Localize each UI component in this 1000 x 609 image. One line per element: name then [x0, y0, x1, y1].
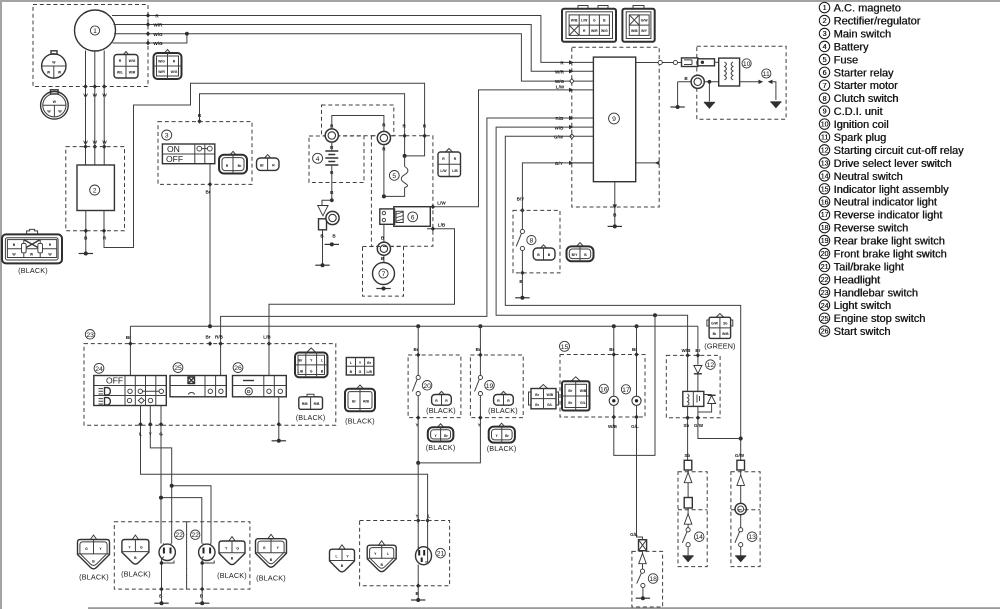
svg-text:6: 6 — [823, 70, 827, 77]
svg-text:20: 20 — [821, 251, 829, 258]
svg-text:Sb: Sb — [684, 453, 690, 458]
wire B CDI to ground — [613, 182, 618, 225]
svg-text:G/L: G/L — [580, 401, 586, 405]
wire CDI to ignition coil with bullets — [636, 60, 682, 64]
tail/brake light bulb (21) — [416, 547, 446, 565]
svg-text:G/W: G/W — [641, 19, 649, 23]
svg-text:17: 17 — [622, 387, 630, 394]
rear brake light switch (19) — [418, 326, 494, 463]
svg-text:Br: Br — [476, 347, 481, 352]
svg-text:(BLACK): (BLACK) — [217, 571, 247, 580]
svg-text:Br: Br — [609, 347, 614, 352]
svg-text:L: L — [428, 514, 431, 519]
CDI 4-pin connector — [622, 6, 654, 42]
svg-text:21: 21 — [821, 264, 829, 271]
clutch connector B/Y,B — [567, 243, 594, 262]
connector Br,R/B (BLACK) — [345, 385, 375, 426]
A.C. magneto dashed box — [33, 5, 148, 87]
A.C. magneto (1) — [75, 10, 116, 51]
svg-text:22: 22 — [175, 532, 183, 539]
battery negative link branch — [318, 200, 332, 264]
clutch switch dashed box — [513, 210, 560, 273]
wire B/Y CDI right stub — [636, 161, 660, 165]
svg-text:14: 14 — [821, 173, 829, 180]
wire W/R from magneto — [114, 22, 572, 71]
svg-text:G/W: G/W — [694, 423, 704, 428]
ignition coil (10) — [719, 58, 752, 86]
svg-text:W/B: W/B — [722, 332, 729, 336]
svg-text:B/Y: B/Y — [517, 196, 525, 201]
svg-text:18: 18 — [649, 576, 657, 583]
triangle connector Y,L,B in tail box — [367, 541, 396, 572]
neutral switch connector — [684, 460, 692, 470]
starter relay (6) — [380, 207, 431, 227]
svg-text:W: W — [83, 140, 88, 145]
svg-text:R/B: R/B — [363, 400, 369, 404]
ground headlight left — [154, 601, 168, 605]
diode 2 relay12 — [698, 395, 716, 413]
svg-text:Y: Y — [478, 423, 481, 428]
svg-text:W/G: W/G — [158, 60, 165, 64]
wire W/G second from magneto — [113, 32, 189, 46]
svg-text:G: G — [263, 546, 266, 550]
rectifier/regulator (2) — [77, 165, 114, 211]
wire battery positive with bullets — [330, 116, 386, 197]
battery dashed box — [309, 136, 364, 183]
svg-text:G: G — [159, 432, 163, 437]
svg-text:26: 26 — [234, 365, 242, 372]
svg-text:(BLACK): (BLACK) — [121, 570, 151, 579]
svg-text:Starter relay: Starter relay — [834, 67, 894, 79]
svg-text:G/W: G/W — [554, 135, 564, 140]
svg-text:W/B: W/B — [571, 19, 578, 23]
border artifact top — [0, 0, 1000, 2]
wire Y light switch to headlights — [148, 406, 211, 544]
svg-text:W/R: W/R — [154, 23, 164, 28]
bullet connector starter motor — [377, 242, 390, 255]
svg-text:R/B: R/B — [215, 335, 224, 340]
svg-text:Drive select lever switch: Drive select lever switch — [834, 158, 952, 170]
svg-text:8: 8 — [823, 96, 827, 103]
svg-text:W/G: W/G — [153, 41, 163, 46]
svg-text:W/B: W/B — [555, 125, 565, 130]
triangle connector Y,G,B (BLACK) in left box — [121, 535, 151, 578]
ground drive select switch — [735, 556, 746, 562]
svg-text:R/B: R/B — [302, 402, 308, 406]
svg-text:G/L: G/L — [630, 532, 638, 537]
svg-text:7: 7 — [382, 271, 386, 278]
wire Y brake to tail light — [415, 463, 420, 550]
svg-text:Starting circuit cut-off relay: Starting circuit cut-off relay — [834, 145, 965, 157]
svg-text:(GREEN): (GREEN) — [704, 342, 735, 351]
border artifact bottom — [88, 607, 1000, 609]
wire Br to light switch — [126, 326, 133, 375]
svg-text:Br: Br — [535, 403, 539, 407]
svg-text:W/G: W/G — [129, 59, 136, 63]
svg-text:(BLACK): (BLACK) — [79, 573, 109, 582]
front brake light switch (20) dashed box — [408, 355, 461, 418]
svg-text:L/B: L/B — [452, 169, 458, 173]
wire G light switch to headlights — [159, 406, 202, 544]
svg-text:Y: Y — [149, 432, 152, 437]
circled 22 right — [191, 530, 200, 539]
svg-text:A.C. magneto: A.C. magneto — [834, 3, 901, 15]
svg-text:W/B: W/B — [631, 29, 638, 33]
ground starter motor — [376, 287, 390, 291]
svg-text:R/B: R/B — [314, 402, 320, 406]
wire W x3 magneto to rectifier — [83, 51, 107, 166]
svg-text:Br: Br — [126, 335, 131, 340]
spark plug (11) — [740, 69, 776, 100]
svg-text:9: 9 — [823, 109, 827, 116]
svg-text:5: 5 — [392, 173, 396, 180]
svg-text:Fuse: Fuse — [834, 54, 858, 66]
svg-text:(BLACK): (BLACK) — [426, 443, 456, 452]
svg-text:16: 16 — [600, 386, 608, 393]
front brake light switch (20) — [412, 326, 432, 465]
big connector (BLACK) 6-pin bottom left — [2, 229, 62, 274]
svg-text:Sb: Sb — [683, 423, 689, 428]
svg-text:L: L — [321, 359, 323, 363]
svg-text:Main switch: Main switch — [834, 29, 891, 41]
diode relay12 — [694, 366, 702, 374]
start switch (26) — [233, 363, 287, 397]
svg-text:17: 17 — [821, 212, 829, 219]
triangle connector G,Y,B (BLACK) far left — [78, 535, 110, 581]
svg-text:(BLACK): (BLACK) — [345, 417, 375, 426]
reverse switch (18) — [637, 551, 658, 597]
rear brake light switch (19) dashed box — [470, 355, 523, 418]
CDI 8-pin connector — [562, 6, 616, 42]
svg-text:Y: Y — [415, 514, 418, 519]
triangle connector G,Y,B (BLACK) right of boxes — [256, 534, 287, 582]
svg-text:10: 10 — [821, 122, 829, 129]
wire W/B into relay12 — [682, 348, 692, 391]
svg-text:OFF: OFF — [166, 154, 183, 164]
svg-text:Y: Y — [415, 423, 418, 428]
svg-text:B/Y: B/Y — [555, 161, 563, 166]
starter motor dashed box — [363, 247, 404, 297]
ground spark plug — [770, 102, 781, 108]
relay12 coil box — [683, 391, 704, 406]
svg-text:1: 1 — [93, 28, 97, 35]
svg-text:W/G: W/G — [555, 79, 565, 84]
svg-text:Ignition coil: Ignition coil — [834, 119, 889, 131]
svg-text:Neutral indicator light: Neutral indicator light — [834, 197, 937, 209]
ground neutral switch — [683, 556, 694, 562]
svg-text:W/R: W/R — [158, 70, 165, 74]
wire B/Y CDI to clutch switch — [517, 163, 594, 213]
circled 22 left — [175, 530, 184, 539]
svg-text:G/L: G/L — [631, 424, 639, 429]
connector W/G,R / W/R,W/G — [154, 50, 182, 80]
fuse/starter-relay dashed box — [371, 136, 433, 246]
svg-text:26: 26 — [821, 329, 829, 336]
svg-text:Br: Br — [632, 347, 637, 352]
svg-text:25: 25 — [821, 316, 829, 323]
main switch dashed box — [158, 122, 252, 185]
ignition primary connector — [682, 58, 719, 67]
svg-text:G: G — [593, 19, 596, 23]
bullet connector battery negative — [326, 211, 339, 238]
svg-text:4: 4 — [823, 44, 827, 51]
svg-text:W/L: W/L — [117, 71, 123, 75]
light switch (24) — [94, 363, 167, 405]
svg-text:W/R: W/R — [555, 69, 565, 74]
svg-text:(BLACK): (BLACK) — [18, 266, 48, 275]
svg-text:24: 24 — [95, 366, 103, 373]
bullet connector fuse feed — [377, 131, 390, 144]
svg-text:18: 18 — [821, 225, 829, 232]
connector Y,Br (BLACK) rear — [487, 423, 517, 453]
starting circuit cut-off relay (12) dashed box — [666, 355, 720, 417]
drive select lever switch (13) — [735, 470, 757, 556]
svg-text:Reverse switch: Reverse switch — [834, 223, 909, 235]
svg-text:R/B: R/B — [556, 116, 565, 121]
bullet connector pair dashed box — [322, 105, 394, 136]
svg-text:W/R: W/R — [591, 29, 598, 33]
wire R from magneto — [112, 13, 572, 62]
svg-text:(BLACK): (BLACK) — [256, 574, 286, 583]
svg-text:Br: Br — [568, 389, 572, 393]
triangle connector L,Y,B floating — [330, 545, 355, 572]
ground tail light — [411, 598, 425, 602]
main switch (3) ON/OFF table — [162, 144, 214, 164]
ignition dashed box — [697, 46, 786, 119]
svg-text:L/B: L/B — [366, 370, 372, 374]
headlight dashed box left — [114, 522, 186, 589]
svg-text:G: G — [359, 370, 362, 374]
svg-text:(BLACK): (BLACK) — [488, 406, 518, 415]
svg-text:8: 8 — [530, 238, 534, 245]
svg-text:11: 11 — [763, 71, 770, 78]
svg-text:W: W — [93, 93, 98, 98]
svg-text:L/W: L/W — [437, 201, 446, 206]
wire L/B starter relay to handlebar — [263, 223, 454, 376]
svg-text:12: 12 — [821, 148, 829, 155]
svg-text:Front brake light switch: Front brake light switch — [834, 249, 947, 261]
wire G/W relay12 to drive select — [694, 406, 745, 457]
headlight bulb right (22) — [199, 543, 215, 602]
wire Sb relay12 to neutral switch — [683, 406, 690, 460]
wire W/B CDI to cut-off relay — [496, 127, 687, 355]
svg-text:Start switch: Start switch — [834, 326, 891, 338]
svg-text:22: 22 — [821, 277, 829, 284]
svg-text:L/B: L/B — [438, 223, 446, 228]
svg-text:23: 23 — [86, 332, 94, 339]
connector (GREEN) — [704, 314, 735, 351]
bullet connector ignition — [691, 75, 704, 88]
ground headlight right — [195, 601, 209, 605]
svg-text:22: 22 — [191, 532, 199, 539]
ground start switch — [272, 439, 286, 443]
indicator connector B Br,W/B/Br,G/L — [562, 377, 590, 411]
svg-text:L/B: L/B — [263, 335, 271, 340]
connector R/B,R/B (BLACK) — [296, 394, 326, 422]
connector R,R (BLACK) rear — [488, 391, 518, 415]
svg-text:W/G: W/G — [171, 70, 178, 74]
rectifier/regulator dashed box — [66, 147, 125, 231]
handlebar switch (23) dashed box — [84, 330, 336, 426]
svg-text:15: 15 — [561, 344, 569, 351]
svg-text:G: G — [85, 547, 88, 551]
svg-text:Br: Br — [568, 401, 572, 405]
svg-text:13: 13 — [748, 534, 756, 541]
svg-text:G: G — [310, 370, 313, 374]
svg-text:L/W: L/W — [581, 19, 588, 23]
wire G/W CDI to drive select switch — [505, 136, 742, 460]
svg-text:1: 1 — [823, 5, 827, 12]
main switch connector R,Br — [219, 151, 247, 173]
svg-text:2: 2 — [823, 18, 827, 25]
fuse (5) — [382, 156, 408, 199]
svg-text:Battery: Battery — [834, 41, 869, 53]
svg-text:19: 19 — [486, 383, 494, 390]
wire W/G from magneto — [114, 31, 572, 81]
round connector W (below magneto box) — [41, 90, 69, 119]
connector Y,Br (BLACK) front — [426, 424, 456, 452]
svg-text:W/R: W/R — [129, 71, 136, 75]
main switch connector Br,R — [257, 155, 280, 171]
svg-text:Rear brake light switch: Rear brake light switch — [834, 236, 945, 248]
svg-text:L: L — [350, 361, 352, 365]
svg-text:OFF: OFF — [106, 376, 123, 386]
legend list — [819, 2, 964, 338]
svg-text:Light switch: Light switch — [834, 300, 891, 312]
svg-text:C.D.I. unit: C.D.I. unit — [834, 106, 883, 118]
wire Br bus — [130, 324, 698, 328]
6-pin grid connector L,Y,Br/B,G,L/B — [346, 358, 374, 376]
svg-text:Neutral switch: Neutral switch — [834, 171, 903, 183]
svg-text:G: G — [140, 545, 143, 549]
svg-text:Starter motor: Starter motor — [834, 80, 899, 92]
svg-text:(BLACK): (BLACK) — [487, 444, 517, 453]
svg-text:L/W: L/W — [440, 169, 447, 173]
svg-text:4: 4 — [316, 156, 320, 163]
svg-text:W: W — [102, 93, 107, 98]
ground reverse switch — [636, 596, 650, 600]
svg-text:Clutch switch: Clutch switch — [834, 93, 899, 105]
svg-text:Br: Br — [535, 393, 539, 397]
ground clutch switch — [515, 296, 529, 300]
svg-text:14: 14 — [695, 534, 703, 541]
svg-text:W/G: W/G — [601, 29, 608, 33]
connector R,R/L/W,L/B — [438, 149, 461, 177]
svg-text:6: 6 — [411, 214, 415, 221]
neutral switch (14) dashed box — [678, 472, 707, 567]
border artifact left — [0, 0, 2, 609]
clutch connector B,B — [533, 245, 555, 260]
svg-text:Rectifier/regulator: Rectifier/regulator — [834, 16, 921, 28]
C.D.I. unit dashed box — [572, 47, 659, 207]
svg-text:23: 23 — [821, 290, 829, 297]
svg-text:Sb: Sb — [723, 322, 727, 326]
wire B rectifier to ground — [84, 211, 89, 253]
indicator connector A Br,W/B/Br,G/L — [529, 385, 559, 409]
svg-text:9: 9 — [612, 116, 616, 123]
svg-text:B/Y: B/Y — [641, 29, 647, 33]
svg-text:B/Y: B/Y — [572, 253, 578, 257]
ground ignition center — [704, 103, 715, 109]
svg-text:16: 16 — [821, 199, 829, 206]
svg-text:3: 3 — [165, 133, 169, 140]
wire G/L reverse lamp to reverse switch — [630, 406, 642, 540]
svg-text:W: W — [102, 140, 107, 145]
svg-text:G/W: G/W — [711, 322, 719, 326]
svg-text:W/B: W/B — [580, 389, 587, 393]
svg-text:11: 11 — [821, 135, 828, 142]
bullet connector battery — [325, 129, 338, 142]
svg-text:10: 10 — [743, 61, 751, 68]
svg-text:L: L — [387, 552, 389, 556]
wire L light switch to tail light — [138, 406, 430, 557]
wire R/B CDI to start switch — [215, 118, 572, 376]
reverse switch (18) dashed box — [632, 551, 663, 607]
svg-text:24: 24 — [821, 303, 829, 310]
wire start switch ground — [277, 397, 281, 440]
ground CDI — [608, 224, 622, 228]
wire Br into relay12 via diode — [695, 326, 700, 391]
svg-text:L/W: L/W — [556, 84, 565, 89]
C.D.I. unit (9) — [593, 57, 635, 182]
svg-text:G/W: G/W — [735, 453, 745, 458]
svg-text:Br: Br — [205, 190, 210, 195]
svg-text:L/B: L/B — [298, 370, 304, 374]
ground rectifier — [79, 252, 93, 256]
connector R,R (BLACK) front — [426, 391, 456, 415]
engine stop switch (25) — [170, 363, 226, 397]
svg-text:13: 13 — [821, 161, 829, 168]
svg-text:Tail/brake light: Tail/brake light — [834, 261, 904, 273]
svg-text:W/G: W/G — [153, 32, 163, 37]
drive select lever switch (13) dashed box — [731, 472, 760, 567]
svg-text:W: W — [83, 93, 88, 98]
svg-text:Br: Br — [299, 359, 303, 363]
indicator light assembly (15) dashed box — [560, 341, 646, 417]
wire L/W starter relay to CDI — [430, 84, 572, 209]
CDI input pins R/B W/B G/W B/Y — [554, 116, 593, 166]
svg-text:15: 15 — [821, 186, 829, 193]
svg-text:20: 20 — [423, 383, 431, 390]
svg-text:Engine stop switch: Engine stop switch — [834, 313, 926, 325]
reverse indicator light (17) — [621, 326, 641, 405]
ground battery link — [315, 263, 329, 267]
starter motor (7) — [373, 263, 395, 285]
connector R,W/G / W/L,W/R — [114, 52, 138, 79]
svg-text:Headlight: Headlight — [834, 274, 880, 286]
svg-text:25: 25 — [174, 365, 182, 372]
headlight dashed box right — [187, 522, 250, 589]
svg-text:3: 3 — [823, 31, 827, 38]
battery (4) — [313, 150, 339, 202]
svg-text:W: W — [93, 140, 98, 145]
svg-text:G/L: G/L — [547, 403, 553, 407]
svg-text:21: 21 — [437, 551, 445, 558]
wire R main switch feed — [197, 94, 406, 158]
svg-text:12: 12 — [707, 362, 715, 369]
drive select lever switch connector — [737, 460, 745, 470]
svg-text:(BLACK): (BLACK) — [296, 413, 326, 422]
svg-text:Br: Br — [413, 347, 418, 352]
svg-text:2: 2 — [93, 188, 97, 195]
wire W/B neutral lamp to relay line — [608, 315, 655, 455]
wire Br from main switch down — [205, 164, 212, 327]
svg-text:ON: ON — [167, 144, 180, 154]
triangle connector Y,G,B (BLACK) in right box — [217, 537, 247, 580]
svg-text:Br: Br — [695, 348, 700, 353]
svg-text:5: 5 — [823, 57, 827, 64]
svg-text:Reverse indicator light: Reverse indicator light — [834, 210, 943, 222]
